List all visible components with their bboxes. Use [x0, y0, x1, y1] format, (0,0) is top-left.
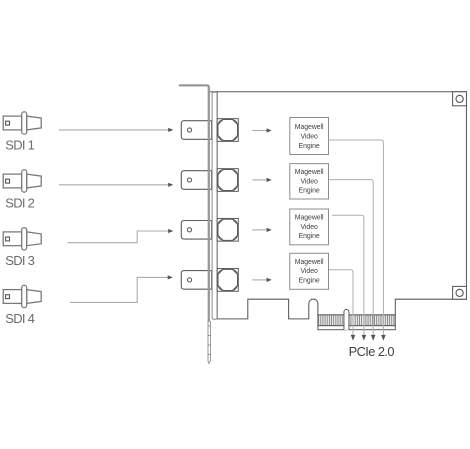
svg-text:Engine: Engine [299, 278, 320, 285]
svg-text:Engine: Engine [299, 188, 320, 195]
svg-text:SDI 4: SDI 4 [5, 311, 34, 326]
svg-text:Video: Video [301, 268, 318, 275]
svg-text:Video: Video [301, 134, 318, 141]
svg-text:Magewell: Magewell [295, 124, 324, 131]
svg-text:SDI 3: SDI 3 [5, 253, 34, 268]
svg-text:PCIe 2.0: PCIe 2.0 [349, 344, 395, 359]
svg-text:SDI 2: SDI 2 [5, 195, 34, 210]
svg-text:Magewell: Magewell [295, 169, 324, 176]
svg-text:Video: Video [301, 224, 318, 231]
svg-text:Magewell: Magewell [295, 214, 324, 221]
svg-text:Engine: Engine [299, 233, 320, 240]
svg-text:SDI 1: SDI 1 [5, 138, 34, 153]
svg-text:Magewell: Magewell [295, 259, 324, 266]
svg-text:Video: Video [301, 178, 318, 185]
svg-text:Engine: Engine [299, 143, 320, 150]
